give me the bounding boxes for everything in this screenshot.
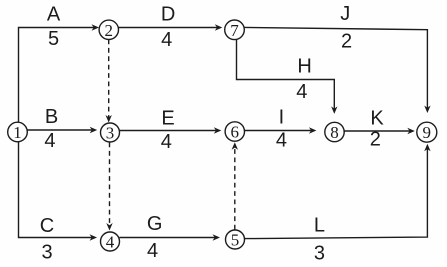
svg-text:E: E — [161, 108, 174, 130]
svg-text:5: 5 — [231, 231, 240, 250]
svg-text:L: L — [314, 215, 325, 237]
node 8 — [325, 122, 344, 142]
node 7 — [225, 20, 245, 40]
node 3 — [101, 123, 120, 143]
wire G (node4 to node5) — [120, 234, 221, 240]
wire K (node8 to node9) — [344, 128, 415, 134]
svg-text:G: G — [147, 213, 163, 235]
wire B (node1 right to node3) — [28, 127, 98, 133]
svg-text:I: I — [279, 106, 285, 128]
svg-text:J: J — [340, 3, 350, 25]
node 5 — [226, 230, 245, 250]
dashed dummy wire node5 to node6 — [232, 142, 238, 229]
svg-text:7: 7 — [230, 21, 239, 40]
wire A (node1 up then right to node2) — [19, 24, 100, 122]
svg-text:3: 3 — [314, 242, 325, 264]
svg-text:4: 4 — [106, 233, 115, 252]
svg-text:K: K — [370, 107, 384, 129]
wire J (node7 right then down to node9) — [245, 27, 431, 113]
node 2 — [99, 20, 118, 40]
svg-text:4: 4 — [296, 81, 307, 103]
svg-text:2: 2 — [105, 21, 114, 40]
wire L (node5 right then up to node9) — [245, 144, 431, 239]
svg-text:H: H — [297, 56, 311, 78]
svg-text:C: C — [40, 215, 54, 237]
wire D (node2 to node7) — [119, 24, 223, 30]
svg-text:8: 8 — [330, 123, 339, 142]
svg-text:A: A — [47, 4, 61, 26]
svg-text:5: 5 — [48, 28, 59, 50]
wire H (node7 down, right, down to node8) — [237, 40, 338, 114]
dashed dummy wire node2 to node3 — [106, 40, 112, 123]
svg-text:4: 4 — [161, 29, 172, 51]
svg-text:3: 3 — [42, 242, 53, 264]
node 6 — [225, 122, 244, 142]
node 9 — [417, 122, 437, 142]
svg-text:4: 4 — [161, 131, 172, 153]
wire E (node3 to node6) — [120, 127, 222, 133]
svg-text:1: 1 — [13, 123, 22, 142]
svg-text:3: 3 — [106, 124, 115, 143]
svg-text:2: 2 — [370, 129, 381, 151]
svg-text:4: 4 — [147, 240, 158, 262]
dashed dummy wire node3 to node4 — [106, 143, 112, 231]
wire C (node1 down then right to node4) — [19, 142, 98, 241]
wire I (node6 to node8) — [245, 127, 317, 133]
svg-text:B: B — [45, 106, 58, 128]
svg-text:4: 4 — [276, 129, 287, 151]
node 1 — [8, 122, 28, 142]
svg-text:6: 6 — [231, 123, 240, 142]
node 4 — [101, 232, 120, 252]
svg-text:4: 4 — [44, 130, 55, 152]
svg-text:D: D — [161, 4, 175, 26]
svg-text:2: 2 — [341, 31, 352, 53]
svg-text:9: 9 — [423, 123, 432, 142]
